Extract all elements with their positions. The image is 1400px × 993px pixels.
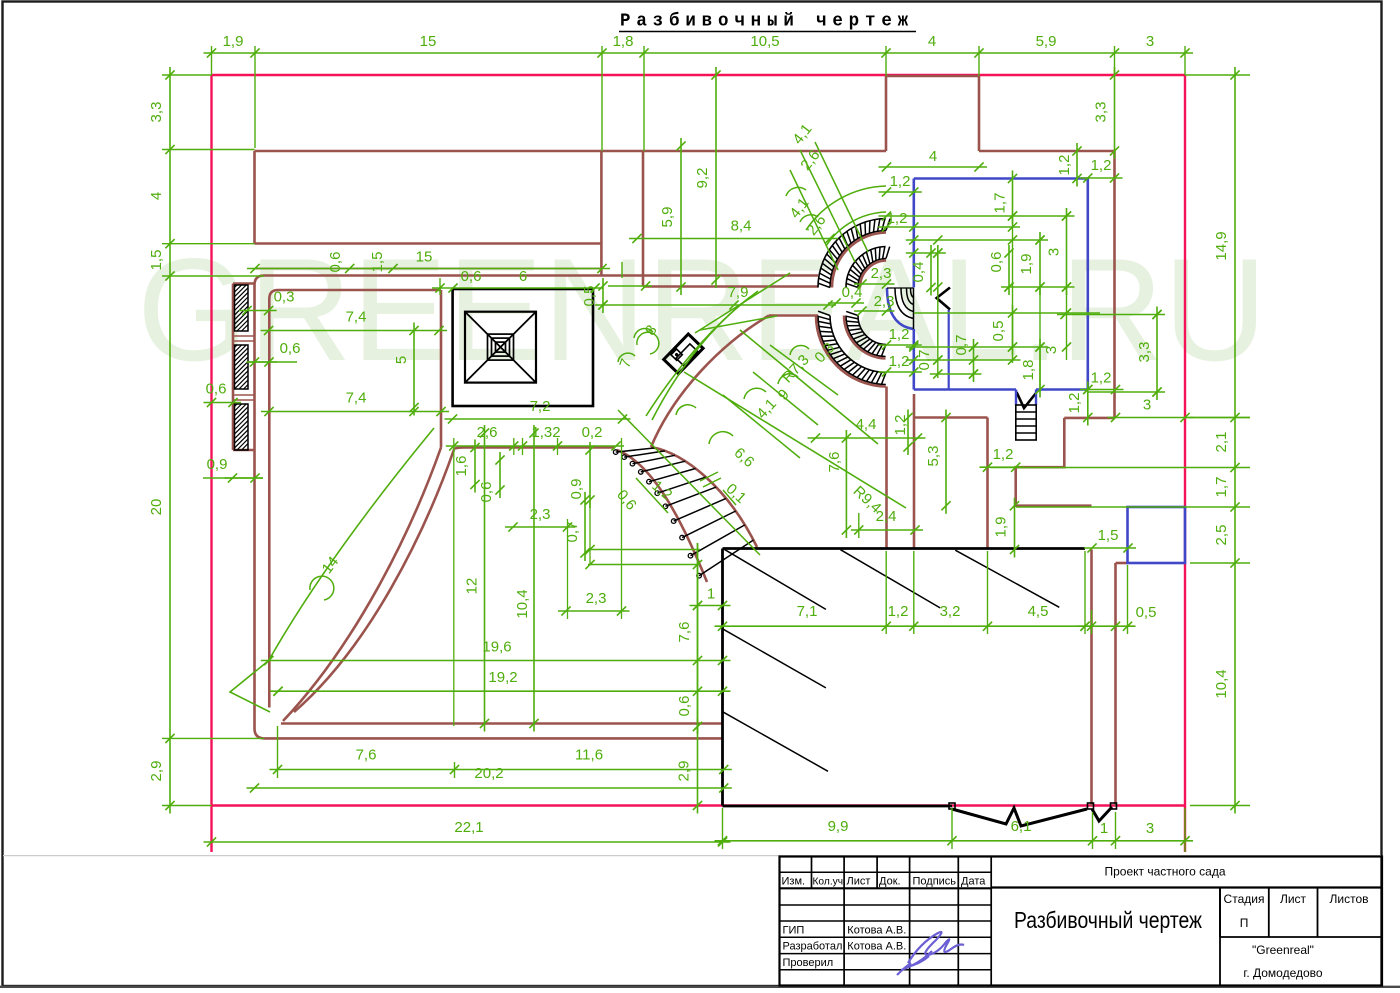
svg-text:5: 5 [393, 356, 410, 364]
svg-text:Дата: Дата [961, 875, 986, 887]
svg-text:1,2: 1,2 [888, 603, 909, 620]
svg-text:1,7: 1,7 [992, 193, 1009, 214]
svg-text:2,3: 2,3 [586, 590, 607, 607]
svg-text:9,9: 9,9 [828, 818, 849, 835]
svg-text:15: 15 [420, 33, 437, 50]
svg-text:2,5: 2,5 [1213, 525, 1230, 546]
svg-text:Проверил: Проверил [783, 957, 834, 969]
svg-text:4: 4 [928, 33, 936, 50]
svg-text:20,2: 20,2 [474, 765, 503, 782]
svg-text:11,6: 11,6 [575, 747, 603, 764]
svg-text:1,2: 1,2 [1066, 393, 1083, 414]
svg-text:7,1: 7,1 [797, 603, 818, 620]
svg-text:0,3: 0,3 [274, 289, 295, 306]
svg-text:19,2: 19,2 [488, 669, 517, 686]
svg-text:Лист: Лист [847, 875, 871, 887]
svg-text:0,7: 0,7 [916, 350, 933, 371]
svg-text:1,9: 1,9 [1018, 254, 1035, 275]
svg-text:0,6: 0,6 [988, 252, 1005, 273]
svg-text:1,2: 1,2 [1091, 157, 1112, 174]
svg-text:2,3: 2,3 [871, 265, 892, 282]
svg-text:1,5: 1,5 [148, 250, 165, 271]
svg-text:0,4: 0,4 [842, 284, 863, 301]
svg-text:Стадия: Стадия [1224, 892, 1265, 906]
svg-text:0,9: 0,9 [568, 479, 585, 500]
svg-text:3,2: 3,2 [940, 603, 961, 620]
svg-text:10,4: 10,4 [1213, 669, 1230, 698]
svg-text:1,2: 1,2 [890, 173, 911, 190]
svg-text:3: 3 [1146, 820, 1154, 837]
svg-text:5,9: 5,9 [1036, 33, 1057, 50]
svg-text:Изм.: Изм. [782, 875, 806, 887]
svg-text:1,2: 1,2 [1056, 155, 1073, 176]
svg-text:1,9: 1,9 [993, 517, 1010, 538]
svg-text:Проект частного сада: Проект частного сада [1104, 865, 1225, 879]
svg-text:3: 3 [1143, 397, 1151, 414]
svg-text:3,3: 3,3 [1093, 102, 1110, 123]
svg-text:4: 4 [148, 192, 165, 200]
svg-text:0,7: 0,7 [953, 335, 970, 356]
svg-text:2,4: 2,4 [876, 508, 897, 525]
svg-text:Кол.уч.: Кол.уч. [813, 876, 846, 887]
svg-text:0,9: 0,9 [207, 456, 228, 473]
svg-text:2,1: 2,1 [1213, 432, 1230, 453]
svg-text:7,4: 7,4 [346, 390, 367, 407]
svg-text:1,2: 1,2 [1091, 370, 1112, 387]
svg-text:Док.: Док. [879, 875, 901, 887]
svg-text:ГИП: ГИП [783, 924, 805, 936]
svg-text:7,6: 7,6 [826, 452, 843, 473]
svg-text:19,6: 19,6 [482, 639, 511, 656]
svg-text:4,5: 4,5 [1028, 603, 1049, 620]
svg-text:1,2: 1,2 [889, 326, 910, 343]
svg-text:2,3: 2,3 [874, 293, 895, 310]
svg-text:4,4: 4,4 [856, 416, 877, 433]
svg-text:3: 3 [1146, 33, 1154, 50]
svg-text:1,7: 1,7 [1213, 477, 1230, 498]
svg-text:1,8: 1,8 [1020, 360, 1037, 381]
svg-text:4: 4 [929, 148, 937, 165]
svg-text:15: 15 [416, 249, 433, 266]
svg-text:Листов: Листов [1330, 892, 1369, 906]
svg-text:10,5: 10,5 [750, 33, 779, 50]
svg-text:0,6: 0,6 [461, 268, 482, 285]
svg-text:1,2: 1,2 [993, 446, 1014, 463]
svg-text:6,1: 6,1 [1011, 818, 1032, 835]
svg-text:0,7: 0,7 [564, 522, 581, 543]
svg-text:5,3: 5,3 [925, 446, 942, 467]
svg-text:1,9: 1,9 [223, 33, 244, 50]
svg-text:14,9: 14,9 [1213, 231, 1230, 260]
svg-text:3: 3 [1046, 248, 1063, 256]
svg-text:6: 6 [519, 268, 527, 285]
svg-text:2,3: 2,3 [530, 506, 551, 523]
svg-text:7,6: 7,6 [676, 622, 693, 643]
svg-text:7,4: 7,4 [346, 309, 367, 326]
svg-text:0,6: 0,6 [478, 482, 495, 503]
svg-text:2,6: 2,6 [477, 424, 498, 441]
svg-text:7,6: 7,6 [356, 747, 377, 764]
svg-text:Котова А.В.: Котова А.В. [847, 941, 906, 953]
svg-text:7,9: 7,9 [728, 284, 749, 301]
svg-text:0,5: 0,5 [990, 321, 1007, 342]
svg-text:9,2: 9,2 [694, 168, 711, 189]
svg-text:1,8: 1,8 [613, 33, 634, 50]
svg-text:GREENREAL.RU: GREENREAL.RU [137, 228, 1267, 391]
svg-text:Разбивочный чертеж: Разбивочный чертеж [1014, 907, 1203, 933]
svg-text:0,4: 0,4 [910, 262, 927, 283]
svg-text:Подпись: Подпись [913, 875, 957, 887]
svg-text:0,5: 0,5 [1136, 604, 1157, 621]
svg-text:1: 1 [1100, 820, 1108, 837]
svg-text:1,2: 1,2 [892, 415, 909, 436]
svg-text:Разбивочный чертеж: Разбивочный чертеж [620, 11, 914, 32]
svg-text:Лист: Лист [1280, 892, 1307, 906]
svg-text:1,5: 1,5 [369, 252, 386, 273]
svg-text:г. Домодедово: г. Домодедово [1243, 966, 1323, 980]
svg-text:0,6: 0,6 [676, 696, 693, 717]
svg-text:П: П [1240, 916, 1249, 930]
svg-text:0,6: 0,6 [327, 252, 344, 273]
svg-text:1,5: 1,5 [1098, 527, 1119, 544]
svg-text:10,4: 10,4 [514, 589, 531, 618]
svg-text:Разработал: Разработал [783, 941, 843, 953]
svg-text:3,3: 3,3 [1136, 342, 1153, 363]
svg-text:3: 3 [1043, 346, 1060, 354]
svg-text:1: 1 [707, 586, 715, 603]
svg-text:3,3: 3,3 [148, 102, 165, 123]
svg-text:0,5: 0,5 [581, 286, 598, 307]
svg-text:Котова А.В.: Котова А.В. [847, 924, 906, 936]
svg-text:2,9: 2,9 [148, 761, 165, 782]
svg-text:12: 12 [464, 578, 481, 595]
svg-text:0,2: 0,2 [582, 424, 603, 441]
svg-text:5,9: 5,9 [659, 207, 676, 228]
svg-text:22,1: 22,1 [454, 819, 483, 836]
svg-text:1,32: 1,32 [531, 424, 560, 441]
svg-text:0,6: 0,6 [206, 381, 227, 398]
svg-text:"Greenreal": "Greenreal" [1252, 943, 1314, 957]
svg-text:7,2: 7,2 [530, 398, 551, 415]
svg-text:8,4: 8,4 [731, 218, 752, 235]
svg-text:2,9: 2,9 [676, 761, 693, 782]
svg-text:1,2: 1,2 [889, 353, 910, 370]
svg-text:1,6: 1,6 [453, 456, 470, 477]
svg-text:20: 20 [148, 499, 165, 516]
svg-text:0,6: 0,6 [280, 340, 301, 357]
